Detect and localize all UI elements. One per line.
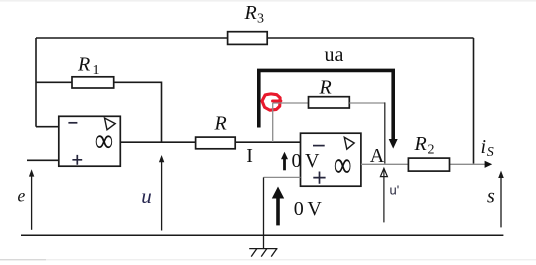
svg-text:0: 0: [292, 150, 302, 172]
svg-text:R: R: [414, 133, 427, 155]
wire: op-amp U1 inverting input stub: [36, 126, 59, 128]
svg-text:ua: ua: [325, 44, 344, 66]
op-amp U1 plus marker: [72, 155, 82, 165]
wire: top feedback wire left segment (node u to R3): [36, 37, 228, 39]
wire: gray output wire from U2 through R2: [361, 163, 486, 165]
op-amp U2 minus marker: [313, 145, 325, 147]
ua bracket (thick): [259, 70, 393, 140]
small thick arrow 0V at U2 input: [283, 158, 286, 170]
resistor R2: [408, 158, 449, 171]
wire: feedback vertical down to node A: [384, 102, 386, 163]
svg-text:V: V: [305, 150, 320, 172]
svg-text:0: 0: [294, 198, 304, 220]
svg-text:∞: ∞: [334, 145, 352, 185]
open arrow u' at node A: [383, 170, 385, 223]
wire: top feedback wire right segment (R3 to right vertical): [267, 37, 473, 39]
svg-text:3: 3: [257, 12, 264, 27]
svg-text:∞: ∞: [95, 121, 113, 159]
thick 0V arrow (to ground): [276, 198, 280, 226]
svg-text:s: s: [487, 186, 495, 208]
top screenshot edge strip: [0, 0, 536, 2]
svg-text:R: R: [244, 2, 257, 24]
svg-text:u': u': [390, 183, 400, 198]
current arrow iS head: [485, 161, 493, 168]
wire: R to op-amp U2 inverting input, node I: [235, 141, 300, 143]
resistor R3: [228, 32, 268, 45]
resistor R (series input): [196, 137, 236, 149]
svg-text:I: I: [246, 145, 253, 167]
svg-text:u: u: [141, 184, 152, 208]
wire: gray non-inverting input stub of U2: [264, 176, 301, 178]
op-amp U1 infinity symbol: [95, 121, 113, 159]
bottom rail: [21, 234, 503, 236]
wire: left vertical bus at x=36: [35, 38, 37, 127]
op-amp U2 plus marker: [313, 172, 325, 184]
wire: gray feedback from R to vertical: [349, 102, 385, 104]
svg-text:R: R: [214, 113, 227, 135]
ground symbol: [249, 249, 277, 257]
wire: ground vertical: [263, 177, 265, 248]
voltage arrow u: [161, 162, 163, 231]
bottom screenshot edge line: [0, 259, 46, 260]
op-amp U2 triangle: [344, 137, 354, 149]
voltage arrow s: [500, 177, 502, 227]
svg-text:R: R: [77, 54, 90, 76]
red scribble annotation: [262, 94, 281, 110]
svg-text:2: 2: [428, 143, 435, 158]
op-amp U1 minus marker: [68, 122, 77, 124]
resistor R1: [72, 77, 114, 88]
wire: op-amp U1 non-inverting input stub: [27, 159, 59, 161]
op-amp U1 box: [59, 116, 121, 166]
op-amp U2 box: [301, 133, 361, 186]
voltage arrow e: [31, 176, 33, 230]
svg-text:e: e: [18, 186, 26, 206]
wire: branch to R1: [36, 81, 72, 83]
op-amp U1 triangle: [105, 118, 116, 130]
svg-text:V: V: [307, 198, 322, 220]
wire: op-amp U1 output to R: [120, 141, 195, 143]
op-amp U2 infinity symbol: [334, 145, 352, 185]
resistor R (feedback): [309, 97, 350, 108]
wire: right vertical from R3 down to output node: [473, 38, 475, 164]
svg-text:i: i: [481, 136, 487, 158]
wire: R1 right to junction: [114, 82, 162, 142]
svg-text:R: R: [319, 77, 332, 99]
wire: gray feedback horizontal to R: [273, 102, 309, 104]
wire: gray feedback tap down to node I: [272, 103, 274, 142]
svg-text:1: 1: [93, 63, 100, 78]
svg-text:S: S: [487, 145, 494, 160]
